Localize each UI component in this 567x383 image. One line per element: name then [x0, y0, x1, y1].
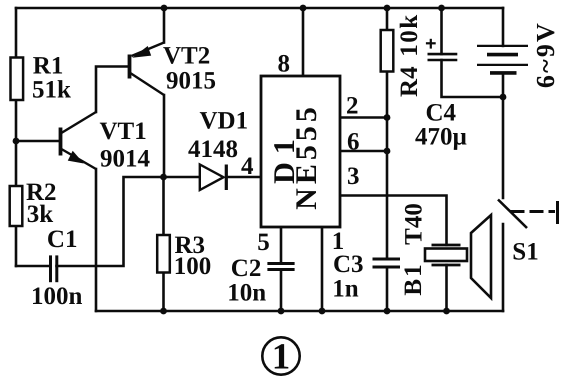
node VT2 collector / R3 / VD1: [160, 174, 167, 181]
wire VT2 collector down to node: [163, 95, 166, 177]
wire R3 branch: [162, 177, 165, 311]
svg-text:S1: S1: [512, 238, 538, 265]
svg-text:9015: 9015: [166, 68, 216, 95]
svg-text:6: 6: [347, 129, 360, 156]
node top rail / R4: [384, 5, 391, 12]
piezo transducer B1 plates: [432, 245, 461, 265]
svg-text:4148: 4148: [188, 136, 238, 163]
svg-text:4: 4: [241, 153, 254, 180]
wire VD1 cathode to pin4: [227, 176, 261, 179]
svg-text:NE555: NE555: [290, 103, 323, 210]
switch S1 actuator dashed link: [511, 210, 556, 213]
svg-text:3: 3: [347, 163, 360, 190]
node top rail / VT2 emitter: [161, 5, 168, 12]
node ground rail / C3: [384, 308, 391, 315]
transistor VT1 emitter arrow: [69, 152, 83, 163]
wire C3 bottom lead: [386, 267, 389, 311]
wire left rail (R1/R2 branch): [15, 8, 18, 266]
resistor R4: [381, 30, 394, 72]
wire VT1 emitter down: [95, 169, 98, 311]
svg-text:VT1: VT1: [100, 118, 147, 145]
capacitor C2 plates: [267, 264, 294, 270]
svg-text:1n: 1n: [332, 276, 359, 303]
wire bottom rail: [96, 310, 503, 313]
svg-text:5: 5: [257, 229, 270, 256]
wire pin 8: [302, 8, 305, 76]
wire C1 left lead: [16, 265, 50, 268]
op-amp/timer IC D1 NE555 body: [261, 76, 340, 227]
svg-text:2: 2: [346, 92, 359, 119]
wire switch lower contact: [502, 224, 505, 311]
wire VT2 emitter from top rail: [163, 8, 166, 43]
node R1/R2/VT1 base: [13, 138, 20, 145]
svg-text:10n: 10n: [227, 280, 266, 307]
wire VT1 collector to VT2 base: [96, 67, 128, 113]
node battery minus / C4: [500, 94, 507, 101]
battery plates 6~9V: [477, 46, 528, 73]
wire pin 6: [340, 150, 387, 153]
wire VT1 base: [16, 140, 59, 143]
resistor R2: [10, 186, 23, 226]
node ground rail / B1: [443, 308, 450, 315]
wire top rail: [16, 7, 503, 10]
node ground rail / R3: [160, 308, 167, 315]
node top rail / pin 8: [300, 5, 307, 12]
resistor R1: [11, 58, 24, 101]
svg-text:100n: 100n: [31, 283, 83, 310]
figure number circle 1: [262, 337, 299, 374]
wire pin 5 to C2: [280, 227, 283, 264]
capacitor C3 plates: [373, 259, 401, 267]
svg-text:100: 100: [174, 253, 212, 280]
wire C4 bottom lead to battery minus: [442, 60, 504, 97]
node top rail / C4: [438, 5, 445, 12]
svg-text:R1: R1: [33, 53, 64, 80]
svg-text:C2: C2: [231, 255, 262, 282]
switch S1 blade: [498, 200, 527, 229]
wire pin 1 to ground: [321, 227, 324, 311]
svg-text:C1: C1: [47, 226, 78, 253]
wire R4 / C3 branch: [386, 8, 389, 259]
wire C2 bottom lead: [280, 270, 283, 312]
svg-text:10k: 10k: [396, 13, 423, 56]
node pin6 / R4: [384, 148, 391, 155]
wire pin 2: [340, 116, 387, 119]
transistor VT2 emitter arrow: [134, 47, 151, 57]
switch S1 push handle: [556, 201, 559, 224]
svg-text:R4: R4: [396, 66, 423, 97]
wire battery negative down to switch: [502, 73, 505, 198]
transistor VT1 (9014): [61, 112, 97, 169]
svg-text:3k: 3k: [27, 201, 54, 228]
svg-text:B1: B1: [400, 262, 427, 295]
svg-text:8: 8: [278, 51, 291, 78]
node pin2 / R4: [384, 114, 391, 121]
diode VD1: [200, 165, 227, 191]
svg-text:51k: 51k: [32, 77, 71, 104]
wire B1 bottom lead: [445, 265, 448, 311]
capacitor C4 plus sign: [426, 39, 436, 49]
svg-text:VD1: VD1: [200, 108, 249, 135]
node ground rail / pin1: [319, 308, 326, 315]
svg-text:T40: T40: [401, 203, 428, 245]
svg-text:VT2: VT2: [163, 43, 210, 70]
svg-text:470µ: 470µ: [415, 124, 467, 151]
wire pin 3 to B1: [340, 196, 447, 246]
speaker horn: [471, 215, 491, 298]
svg-text:C3: C3: [333, 251, 364, 278]
resistor R3: [157, 235, 170, 273]
svg-text:1: 1: [272, 337, 291, 378]
capacitor C1 plates: [51, 255, 57, 282]
svg-text:6~9V: 6~9V: [531, 21, 560, 88]
transistor VT2 (9015): [130, 43, 165, 96]
svg-text:9014: 9014: [100, 146, 151, 173]
wire C4 top lead: [440, 8, 443, 54]
wire C1 right lead to VD1 node: [57, 177, 200, 266]
node ground rail / C2: [278, 308, 285, 315]
piezo transducer B1 crystal body: [425, 249, 467, 262]
wire battery positive from top rail: [502, 8, 505, 46]
capacitor C4 electrolytic plates: [428, 54, 458, 60]
